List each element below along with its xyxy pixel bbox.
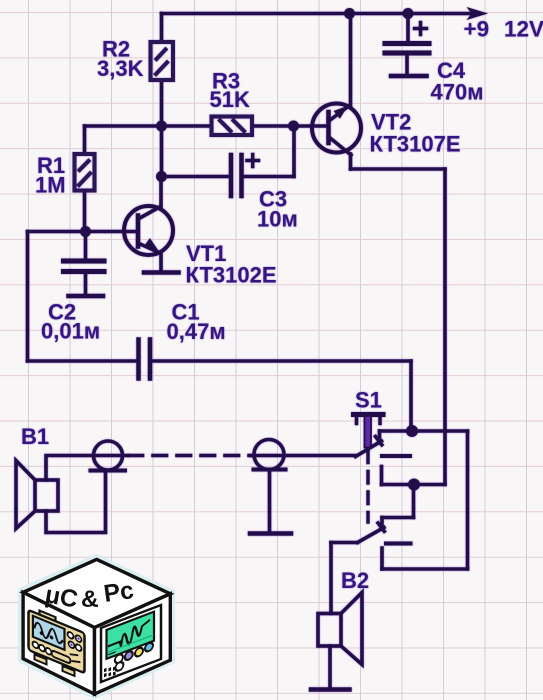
switch S1 mechanical dashed link <box>366 451 369 522</box>
wire R2 top lead <box>160 14 164 43</box>
switch S1 button cap <box>354 415 384 424</box>
svg-text:B2: B2 <box>341 568 369 593</box>
wire C1 left <box>28 359 137 363</box>
wire NO2 horizontal <box>382 516 414 520</box>
logo cube top face <box>23 559 170 627</box>
logo oscilloscope left face <box>29 606 85 680</box>
resistor R3 <box>212 117 253 136</box>
jack circle 1 <box>91 441 126 471</box>
node R1/VT1 base/C2 junction <box>80 226 91 237</box>
svg-text:3,3K: 3,3K <box>97 56 144 81</box>
svg-text:10м: 10м <box>257 207 298 232</box>
switch S1 pole1 moving contact <box>356 437 382 457</box>
transistor VT1 <box>124 177 173 271</box>
wire VT2 collector long vertical <box>443 169 447 485</box>
wire C3 riser to base node <box>292 126 296 177</box>
wire dot2 to collector line <box>414 483 445 487</box>
svg-text:1M: 1M <box>35 173 66 198</box>
logo cube right face <box>95 594 171 694</box>
wire R2 bottom lead <box>160 80 164 126</box>
switch S1 pole1 NC dash <box>382 454 410 458</box>
logo title uC & Pc <box>43 577 136 614</box>
cable dashed link <box>129 454 251 458</box>
resistor R2 <box>151 42 174 80</box>
node VT2 collector/S1 NO2 junction <box>408 479 420 491</box>
ground jack2 <box>250 531 291 536</box>
svg-text:Pc: Pc <box>102 577 135 608</box>
wire pole2 common down to B2 <box>329 543 333 614</box>
switch S1 pole2 NC dash <box>386 542 411 546</box>
wire top supply rail <box>162 12 477 16</box>
wire VT2 collector drop <box>349 154 353 169</box>
wire B1 bottom loop <box>46 471 106 533</box>
transistor VT2 <box>312 104 361 156</box>
svg-text:&: & <box>81 586 99 613</box>
capacitor C3 <box>231 155 259 197</box>
svg-text:51K: 51K <box>210 87 250 112</box>
svg-text:12V: 12V <box>504 17 543 42</box>
wire C1 right <box>152 359 411 363</box>
wire NO2 drop from dot2 <box>412 485 416 518</box>
svg-text:S1: S1 <box>355 388 382 413</box>
wire C1 riser to S1 <box>409 361 413 431</box>
speaker B2 <box>318 593 362 665</box>
capacitor C1 <box>139 340 151 379</box>
wire C4 bottom lead <box>405 55 409 74</box>
wire C4 top lead <box>406 14 410 44</box>
svg-text:B1: B1 <box>21 424 49 449</box>
ground VT1 emitter <box>144 270 179 275</box>
svg-text:470м: 470м <box>431 80 484 105</box>
node C1/S1 NO1 junction <box>406 425 418 437</box>
wire pole2 common horizontal <box>331 541 358 545</box>
node VT1 collector/C3 junction <box>156 171 167 182</box>
logo cube left face <box>23 592 94 694</box>
wire NO2 contact stub <box>380 518 384 527</box>
wire VT2 collector horizontal <box>351 167 446 171</box>
wire B1 top terminal <box>46 456 128 481</box>
wire left vertical to C1 <box>26 232 30 362</box>
wire right loop bottom <box>382 567 468 571</box>
wire VT1 base row <box>28 230 138 234</box>
power arrow +9 12V <box>467 7 489 20</box>
svg-text:КТ3102Е: КТ3102Е <box>186 263 277 288</box>
svg-text:0,47м: 0,47м <box>167 319 226 344</box>
wire right loop vertical <box>466 431 470 569</box>
ground B2 <box>311 687 350 692</box>
wire S1 NO1 row to right loop <box>380 429 468 433</box>
wire dot2 left L horizontal <box>382 483 415 487</box>
node rail/C4 junction <box>403 8 414 19</box>
wire dot2 left L vertical <box>380 467 384 485</box>
switch S1 pole2 moving contact <box>358 523 385 543</box>
wire collector node to C3 left <box>162 175 232 179</box>
wire right loop left stub <box>380 548 384 569</box>
wire pole1 common from jack2 <box>251 454 356 458</box>
node base row: R1 to R3 <box>85 124 212 128</box>
capacitor C4 <box>385 23 429 77</box>
wire S1 NO1 contact stub <box>378 431 382 443</box>
svg-text:μC: μC <box>43 581 80 613</box>
capacitor C2 <box>64 232 105 295</box>
wire VT2 emitter to rail <box>349 14 353 106</box>
node R3/VT2 base/C3 junction <box>288 121 299 132</box>
wire C3 right <box>242 175 295 179</box>
resistor R1 <box>75 154 95 191</box>
wire R3 right to VT2 base <box>252 124 327 128</box>
wire B2 bottom lead <box>328 646 332 688</box>
logo cube halo <box>21 557 172 696</box>
jack circle 2 <box>254 440 286 470</box>
svg-text:0,01м: 0,01м <box>41 319 100 344</box>
wire jack2 stem <box>268 470 272 532</box>
switch S1 plunger <box>365 416 372 448</box>
node rail/VT2 emitter junction <box>344 8 355 19</box>
logo monitor right face <box>101 605 161 682</box>
node R2/R1/R3 junction <box>156 121 167 132</box>
svg-text:+9: +9 <box>464 17 490 42</box>
wire node 162-126 down to collector node <box>160 126 164 177</box>
ground C2 <box>69 294 104 299</box>
svg-text:КТ3107Е: КТ3107Е <box>370 132 461 157</box>
speaker B1 <box>16 461 58 529</box>
wire R1 bottom lead <box>83 191 87 232</box>
wire R1 top lead <box>83 126 87 154</box>
